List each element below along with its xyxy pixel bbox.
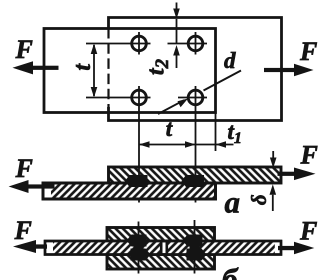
force arrow (top view, left) — [13, 61, 59, 74]
view a: upper strip (right plate, hatched) — [109, 167, 282, 183]
svg-text:F: F — [299, 217, 317, 246]
rivet B2 circle (top-right) — [188, 36, 203, 51]
bottom dimension line t / t1 — [139, 113, 234, 151]
view a: lower strip (left plate, hatched) — [43, 183, 216, 199]
dimension t (vertical, left) — [91, 44, 98, 98]
view a: rivet R1 (black, at interface) — [125, 175, 148, 187]
rivet B2 centerlines (top-right) — [168, 32, 208, 55]
view b: rivet centerline left — [138, 222, 140, 274]
force arrow (view a, left) — [9, 180, 55, 193]
rivet B3 centerlines (bottom-left) — [86, 86, 151, 203]
dimension delta (view a, right) — [270, 151, 277, 211]
svg-text:F: F — [299, 37, 317, 66]
view b: upper cover plate (hatched) — [107, 228, 215, 242]
svg-text:F: F — [15, 35, 33, 64]
svg-text:F: F — [14, 216, 32, 245]
svg-text:а: а — [225, 185, 241, 220]
top view: right plate (lower layer) outline — [109, 18, 282, 121]
force arrow (top view, right) — [264, 64, 314, 77]
rivet B4 circle (bottom-right) — [188, 90, 203, 105]
top view: right plate hidden left edge (dashed) — [107, 28, 109, 109]
rivet B1 centerlines (top-left) — [86, 32, 151, 55]
svg-text:δ: δ — [247, 194, 271, 205]
top view: left plate outline — [44, 29, 216, 113]
view b: rivet R3 (black heads, left column) — [127, 235, 151, 261]
view a: rivet R2 (black, at interface) — [182, 175, 205, 187]
view b: lower cover plate (hatched) — [107, 255, 215, 270]
view b: main plate right (hatched) — [167, 241, 281, 255]
svg-text:F: F — [300, 141, 318, 170]
svg-text:F: F — [15, 154, 33, 183]
svg-text:б: б — [222, 262, 239, 280]
force arrow (view b, right) — [278, 242, 314, 255]
view b: main plate left (hatched) — [45, 241, 161, 255]
leader line for d — [158, 71, 241, 115]
view b: rivet R4 (black heads, right column) — [183, 235, 207, 261]
force arrow (view a, right) — [278, 168, 316, 181]
svg-text:t: t — [166, 116, 173, 141]
rivet B1 circle (top-left) — [132, 36, 147, 51]
rivet B3 circle (bottom-left) — [132, 90, 147, 105]
svg-text:d: d — [224, 48, 236, 73]
force arrow (view b, left) — [13, 240, 47, 253]
rivet B4 centerlines (bottom-right) — [178, 86, 207, 203]
view b: rivet centerline right — [194, 220, 196, 274]
dimension t2 (vertical, top) — [173, 3, 180, 69]
